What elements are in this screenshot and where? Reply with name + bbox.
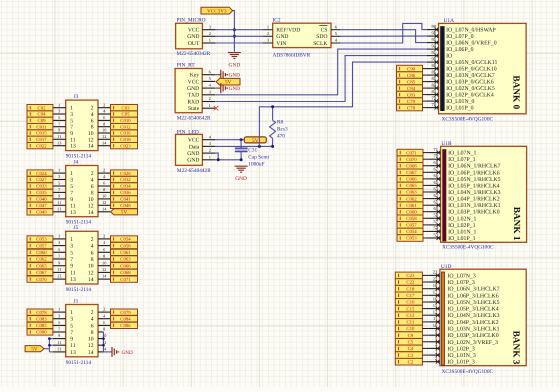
- J3 pin 14: [98, 145, 111, 147]
- svg-text:8: 8: [91, 125, 94, 131]
- svg-text:2: 2: [267, 31, 269, 36]
- port C070: [27, 276, 53, 282]
- svg-text:Res3: Res3: [277, 127, 288, 133]
- PIN_RT pin 6: [202, 74, 215, 76]
- J5 pin 3: [53, 245, 66, 247]
- port C033: [27, 183, 53, 189]
- svg-text:53: 53: [434, 232, 439, 237]
- U1D pin 5: [428, 341, 440, 343]
- svg-text:3: 3: [70, 317, 73, 323]
- svg-text:C070: C070: [36, 277, 47, 283]
- svg-text:9: 9: [70, 264, 73, 270]
- svg-text:10: 10: [88, 131, 94, 137]
- svg-text:4: 4: [91, 112, 94, 118]
- svg-text:C065: C065: [36, 263, 47, 269]
- J5 pin 1: [53, 238, 66, 240]
- port C063: [397, 189, 423, 196]
- J3 pin 10: [98, 132, 111, 134]
- svg-text:TXD: TXD: [188, 93, 200, 99]
- svg-text:Key: Key: [190, 73, 200, 79]
- U1B pin 63: [429, 191, 441, 193]
- svg-text:1: 1: [267, 24, 269, 29]
- svg-text:C058: C058: [406, 216, 417, 222]
- svg-text:C066: C066: [120, 263, 131, 269]
- svg-text:VCC: VCC: [188, 79, 200, 85]
- J5 pin 6: [98, 251, 111, 253]
- wire port C85 to U1A: [423, 81, 428, 83]
- svg-text:XC3S500E-4VQG100C: XC3S500E-4VQG100C: [442, 245, 494, 251]
- svg-text:1: 1: [58, 307, 60, 312]
- J1 pin 9: [53, 338, 66, 340]
- port C054: [397, 228, 423, 235]
- svg-text:2: 2: [91, 106, 94, 112]
- wire port C9 to U1D: [422, 334, 428, 336]
- svg-text:C054: C054: [120, 237, 131, 243]
- svg-text:5: 5: [70, 250, 73, 256]
- svg-text:IO_L04P_1/RHCLK2: IO_L04P_1/RHCLK2: [448, 197, 500, 203]
- U1D pin 12: [428, 314, 440, 316]
- svg-text:79: 79: [432, 95, 437, 100]
- port C053: [27, 236, 53, 242]
- svg-text:IO_L02P_1: IO_L02P_1: [448, 223, 475, 229]
- port C027: [27, 176, 53, 182]
- wire port C11 to U1D: [422, 321, 428, 323]
- svg-text:3: 3: [58, 109, 60, 114]
- J4 pin 13: [53, 211, 66, 213]
- svg-text:90151-2114: 90151-2114: [66, 220, 92, 226]
- svg-text:11: 11: [57, 267, 61, 272]
- power port 5V at PIN_LED: [244, 137, 266, 143]
- svg-text:3: 3: [70, 244, 73, 250]
- port C034: [111, 183, 138, 189]
- svg-text:IO_L04P_3/LHCLK2: IO_L04P_3/LHCLK2: [447, 320, 498, 326]
- U1B pin 53: [429, 237, 441, 239]
- U1A pin 98: [427, 35, 439, 37]
- IC2 pin 6: [331, 29, 341, 31]
- PIN_LED pin 2: [202, 152, 215, 154]
- J1 pin 14: [98, 351, 104, 353]
- wire port C060 to U1B: [423, 211, 429, 213]
- svg-text:4: 4: [91, 244, 94, 250]
- IC2 pin 5: [331, 35, 341, 37]
- svg-text:63: 63: [434, 186, 439, 191]
- svg-text:IO_L06N_3/LHCLK7: IO_L06N_3/LHCLK7: [447, 287, 499, 293]
- port C036: [111, 189, 138, 195]
- svg-text:1: 1: [58, 102, 60, 107]
- svg-text:State: State: [188, 106, 200, 112]
- port C071: [397, 149, 423, 156]
- svg-text:10: 10: [102, 260, 106, 265]
- svg-text:3: 3: [58, 240, 60, 245]
- svg-text:CS: CS: [321, 28, 328, 34]
- svg-text:470: 470: [277, 134, 285, 140]
- PIN_RT pin 3: [202, 94, 215, 96]
- svg-text:GND: GND: [187, 34, 199, 40]
- svg-text:2: 2: [103, 234, 105, 239]
- port C078: [27, 309, 53, 315]
- svg-text:IO_L01N_1: IO_L01N_1: [448, 229, 476, 235]
- J4 pin 7: [53, 191, 66, 193]
- wire port C061 to U1B: [423, 204, 429, 206]
- svg-text:12: 12: [88, 270, 94, 276]
- IC2 pin 4: [331, 42, 341, 44]
- port C066: [397, 176, 423, 183]
- port C018: [111, 136, 138, 142]
- port C79: [397, 98, 423, 105]
- svg-text:5: 5: [58, 115, 60, 120]
- wire port C23 to U1D: [422, 274, 428, 276]
- svg-text:C78: C78: [407, 105, 416, 111]
- port C024: [27, 170, 53, 176]
- svg-text:8: 8: [91, 330, 94, 336]
- wire OUT to VIN: [215, 42, 263, 44]
- U1D pin 11: [428, 321, 440, 323]
- svg-text:2: 2: [91, 237, 94, 243]
- J5 pin 5: [53, 251, 66, 253]
- svg-text:7: 7: [70, 125, 73, 131]
- J5 pin 7: [53, 258, 66, 260]
- svg-text:2: 2: [209, 31, 211, 36]
- ground GND below PIN_MICRO net: [228, 53, 241, 59]
- wire RXD to U1A pin 91: [215, 56, 427, 102]
- junction LED VCC: [240, 138, 243, 141]
- svg-text:58: 58: [434, 213, 439, 218]
- J4 pin 11: [53, 204, 66, 206]
- wire port C79 to U1A: [423, 100, 428, 102]
- wire VCC3V3 down: [233, 11, 235, 52]
- wire port C16 to U1D: [422, 301, 428, 303]
- svg-text:14: 14: [88, 144, 94, 150]
- U1A pin 79: [427, 100, 439, 102]
- svg-text:1: 1: [209, 38, 211, 43]
- svg-text:3: 3: [70, 178, 73, 184]
- port C057: [397, 222, 423, 229]
- svg-text:GND: GND: [122, 350, 133, 356]
- svg-text:5V: 5V: [121, 210, 128, 216]
- svg-text:13: 13: [70, 277, 76, 283]
- svg-text:6: 6: [91, 184, 94, 190]
- svg-text:IO_L07P_1: IO_L07P_1: [448, 157, 475, 163]
- svg-text:9: 9: [58, 128, 60, 133]
- wire CS to U1A pin 95: [341, 30, 428, 43]
- svg-text:C067: C067: [36, 270, 47, 276]
- port C86: [397, 72, 423, 79]
- J4 pin 4: [98, 179, 111, 181]
- U1B pin 67: [429, 171, 441, 173]
- J3 pin 7: [53, 126, 66, 128]
- svg-text:99: 99: [432, 24, 437, 29]
- svg-text:12: 12: [102, 200, 106, 205]
- port C054: [111, 236, 138, 242]
- U1A pin 84: [427, 87, 439, 89]
- svg-text:2: 2: [91, 310, 94, 316]
- port C041: [111, 196, 138, 202]
- svg-text:13: 13: [70, 350, 76, 356]
- power port 5V at PIN_RT VCC pin: [216, 78, 240, 85]
- port C18: [395, 285, 422, 292]
- svg-text:C085: C085: [36, 323, 47, 329]
- svg-text:IO_L06N_0/VREF_0: IO_L06N_0/VREF_0: [446, 41, 497, 47]
- svg-text:3: 3: [58, 313, 60, 318]
- J3 pin 9: [53, 132, 66, 134]
- wire LED GND1 to ground: [215, 159, 241, 161]
- svg-text:C084: C084: [120, 316, 131, 322]
- svg-text:J1: J1: [74, 298, 79, 304]
- svg-text:IO_L06N_1/RHCLK7: IO_L06N_1/RHCLK7: [448, 164, 501, 170]
- J5 pin 11: [53, 271, 66, 273]
- port C011: [27, 124, 53, 130]
- port C062: [397, 195, 423, 202]
- port C02: [27, 105, 53, 111]
- svg-text:67: 67: [434, 167, 439, 172]
- svg-text:IO_L03N_0/GCLK7: IO_L03N_0/GCLK7: [446, 73, 495, 79]
- svg-text:14: 14: [88, 210, 94, 216]
- wire port C062 to U1B: [423, 198, 429, 200]
- svg-text:IO_L05P_3/LHCLK4: IO_L05P_3/LHCLK4: [447, 307, 498, 313]
- J1 pin 11: [53, 344, 66, 346]
- port C066: [111, 263, 138, 269]
- port C03: [111, 105, 138, 111]
- port C09: [27, 117, 53, 123]
- svg-text:PIN_RT: PIN_RT: [177, 63, 196, 69]
- svg-text:C048: C048: [120, 203, 131, 209]
- svg-text:IO_L07P_0: IO_L07P_0: [446, 34, 473, 40]
- svg-text:J3: J3: [74, 94, 79, 100]
- IC2 pin 3: [263, 42, 273, 44]
- J4 pin 12: [98, 204, 111, 206]
- junction J1 pin 10 bus: [102, 337, 105, 340]
- svg-text:14: 14: [88, 350, 94, 356]
- IC2 CS active-low overline: [319, 25, 327, 27]
- J1 pin 2: [98, 311, 111, 313]
- PIN_MICRO pin 1: [202, 42, 215, 44]
- PIN_LED pin 1: [202, 159, 215, 161]
- svg-text:1000uF: 1000uF: [248, 162, 264, 168]
- svg-text:C12: C12: [406, 313, 415, 319]
- wire port C071 to U1B: [423, 152, 429, 154]
- svg-text:IO: IO: [446, 54, 452, 60]
- wire Data net horizontal: [215, 145, 272, 147]
- svg-text:M22-6540642R: M22-6540642R: [177, 116, 211, 122]
- port C065: [397, 182, 423, 189]
- svg-text:9: 9: [70, 337, 73, 343]
- svg-text:23: 23: [433, 270, 438, 275]
- svg-text:C078: C078: [36, 310, 47, 316]
- U1D pin 18: [428, 288, 440, 290]
- U1A pin 99: [427, 29, 439, 31]
- J5 pin 9: [53, 265, 66, 267]
- wire port C058 to U1B: [423, 217, 429, 219]
- svg-text:IO_L02P_0/GCLK4: IO_L02P_0/GCLK4: [446, 93, 494, 99]
- svg-text:5V: 5V: [31, 347, 38, 353]
- U1A pin 85: [427, 81, 439, 83]
- svg-text:IO_L06P_3/LHCLK6: IO_L06P_3/LHCLK6: [447, 293, 498, 299]
- svg-text:11: 11: [57, 200, 61, 205]
- J4 pin 2: [98, 172, 111, 174]
- svg-text:SDO: SDO: [316, 34, 327, 40]
- junction J1 pin 9 bus: [48, 337, 51, 340]
- svg-text:IO_L06P_1/RHCLK6: IO_L06P_1/RHCLK6: [448, 170, 500, 176]
- svg-text:9: 9: [70, 131, 73, 137]
- wire C31 to GND row: [240, 151, 242, 159]
- svg-text:7: 7: [70, 190, 73, 196]
- port C057: [27, 242, 53, 248]
- wire 5V to capacitor C31: [240, 140, 242, 148]
- port C010: [111, 117, 138, 123]
- power port 5V at J1: [25, 346, 44, 352]
- port C068: [397, 163, 423, 170]
- svg-text:5: 5: [70, 184, 73, 190]
- U1D pin 9: [428, 334, 440, 336]
- J1 pin 12: [98, 344, 104, 346]
- junction Data riser: [258, 145, 261, 148]
- wire GND net PIN_MICRO to IC2: [215, 35, 263, 37]
- J3 pin 6: [98, 119, 111, 121]
- svg-text:IO_L03P_1/RHCLK0: IO_L03P_1/RHCLK0: [448, 210, 500, 216]
- junction GND row: [233, 35, 236, 38]
- PIN_RT pin 4: [202, 87, 215, 89]
- ground bar at PIN_RT Key pin: [215, 74, 220, 76]
- wire port C054 to U1B: [423, 230, 429, 232]
- port C058: [111, 242, 138, 248]
- port C4: [395, 345, 422, 352]
- svg-text:1: 1: [58, 234, 60, 239]
- svg-text:VCC: VCC: [188, 28, 200, 34]
- svg-text:90151-2114: 90151-2114: [66, 154, 92, 160]
- svg-text:85: 85: [432, 76, 437, 81]
- U1A pin 90: [427, 61, 439, 63]
- J5 pin 2: [98, 238, 111, 240]
- svg-text:IO_L05N_1/RHCLK5: IO_L05N_1/RHCLK5: [448, 177, 501, 183]
- svg-text:IO_L05N_0/GCLK11: IO_L05N_0/GCLK11: [446, 60, 497, 66]
- U1B pin 61: [429, 204, 441, 206]
- port C049: [27, 209, 53, 215]
- J1 pin 4: [98, 318, 111, 320]
- svg-text:IO_L05P_1/RHCLK4: IO_L05P_1/RHCLK4: [448, 183, 500, 189]
- J3 pin 1: [53, 107, 66, 109]
- port C90: [397, 65, 423, 72]
- port C16: [395, 299, 422, 306]
- port C083: [27, 316, 53, 322]
- port C058: [397, 215, 423, 222]
- svg-text:98: 98: [432, 30, 437, 35]
- svg-text:6: 6: [91, 250, 94, 256]
- svg-text:95: 95: [432, 37, 437, 42]
- port C084: [111, 316, 138, 322]
- svg-text:12: 12: [88, 203, 94, 209]
- svg-text:C086: C086: [120, 323, 131, 329]
- J1 pin 10: [98, 338, 104, 340]
- svg-text:M22-6540442R: M22-6540442R: [177, 168, 211, 174]
- svg-text:IO_L01N_0: IO_L01N_0: [446, 99, 474, 105]
- svg-text:14: 14: [88, 277, 94, 283]
- svg-text:10: 10: [102, 128, 106, 133]
- svg-text:C4: C4: [408, 346, 414, 352]
- PIN_RT pin 2: [202, 101, 215, 103]
- svg-text:1: 1: [70, 106, 73, 112]
- svg-text:GND: GND: [187, 158, 199, 164]
- svg-text:C22: C22: [406, 280, 415, 286]
- port C068: [111, 269, 138, 275]
- junction GND1-C31: [240, 158, 243, 161]
- svg-text:C035: C035: [36, 190, 47, 196]
- wire port C5 to U1D: [422, 341, 428, 343]
- svg-text:IO_L07N_3: IO_L07N_3: [447, 273, 475, 279]
- svg-text:8: 8: [103, 121, 105, 126]
- svg-text:10: 10: [102, 333, 106, 338]
- svg-text:IO_L05N_3/LHCLK5: IO_L05N_3/LHCLK5: [447, 300, 499, 306]
- J5 pin 10: [98, 265, 111, 267]
- svg-text:5: 5: [70, 118, 73, 124]
- J3 pin 2: [98, 107, 111, 109]
- svg-text:86: 86: [432, 69, 437, 74]
- port C085: [27, 322, 53, 328]
- port C067: [27, 269, 53, 275]
- svg-text:11: 11: [57, 134, 61, 139]
- svg-text:C063: C063: [406, 190, 417, 196]
- wire port C86 to U1A: [423, 74, 428, 76]
- svg-text:10: 10: [88, 264, 94, 270]
- svg-text:C060: C060: [406, 209, 417, 215]
- U1D pin 10: [428, 328, 440, 330]
- wire port C066 to U1B: [423, 178, 429, 180]
- wire port C15 to U1D: [422, 308, 428, 310]
- port C22: [395, 279, 422, 286]
- port C012: [111, 124, 138, 130]
- svg-text:IO_L04N_1/RHCLK3: IO_L04N_1/RHCLK3: [448, 190, 501, 196]
- PIN_RT pin 1: [202, 107, 215, 109]
- svg-text:BANK 0: BANK 0: [510, 75, 520, 109]
- svg-text:70: 70: [434, 154, 439, 159]
- svg-text:13: 13: [57, 347, 61, 352]
- wire port C18 to U1D: [422, 288, 428, 290]
- junction GND2 jumper: [217, 158, 220, 161]
- wire port C22 to U1D: [422, 281, 428, 283]
- svg-text:10: 10: [102, 194, 106, 199]
- U1B pin 65: [429, 184, 441, 186]
- junction J1 pin 12 bus: [102, 344, 105, 347]
- U1B pin 54: [429, 230, 441, 232]
- svg-text:IO_L03P_0/GCLK6: IO_L03P_0/GCLK6: [446, 80, 494, 86]
- port C040: [27, 196, 53, 202]
- svg-text:IO_L02N_0/GCLK5: IO_L02N_0/GCLK5: [446, 86, 495, 92]
- J3 pin 13: [53, 145, 66, 147]
- J1 pin 5: [53, 324, 66, 326]
- port C5: [395, 339, 422, 346]
- J4 pin 9: [53, 198, 66, 200]
- svg-text:C067: C067: [406, 170, 417, 176]
- port C060: [397, 208, 423, 215]
- J4 pin 3: [53, 179, 66, 181]
- J4 pin 8: [98, 191, 111, 193]
- svg-text:5: 5: [58, 181, 60, 186]
- svg-text:GND: GND: [235, 176, 247, 182]
- svg-text:11: 11: [57, 340, 61, 345]
- svg-text:C022: C022: [36, 143, 47, 149]
- svg-text:13: 13: [70, 210, 76, 216]
- svg-text:IO_L01P_3: IO_L01P_3: [447, 360, 474, 366]
- U1D pin 2: [428, 361, 440, 363]
- svg-text:C049: C049: [36, 210, 47, 216]
- svg-text:C058: C058: [120, 243, 131, 249]
- port C11: [395, 319, 422, 326]
- svg-text:5: 5: [70, 323, 73, 329]
- svg-text:11: 11: [70, 270, 76, 276]
- port C026: [111, 170, 138, 176]
- svg-text:C083: C083: [36, 316, 47, 322]
- PIN_LED pin 4: [202, 139, 215, 141]
- svg-text:13: 13: [57, 140, 61, 145]
